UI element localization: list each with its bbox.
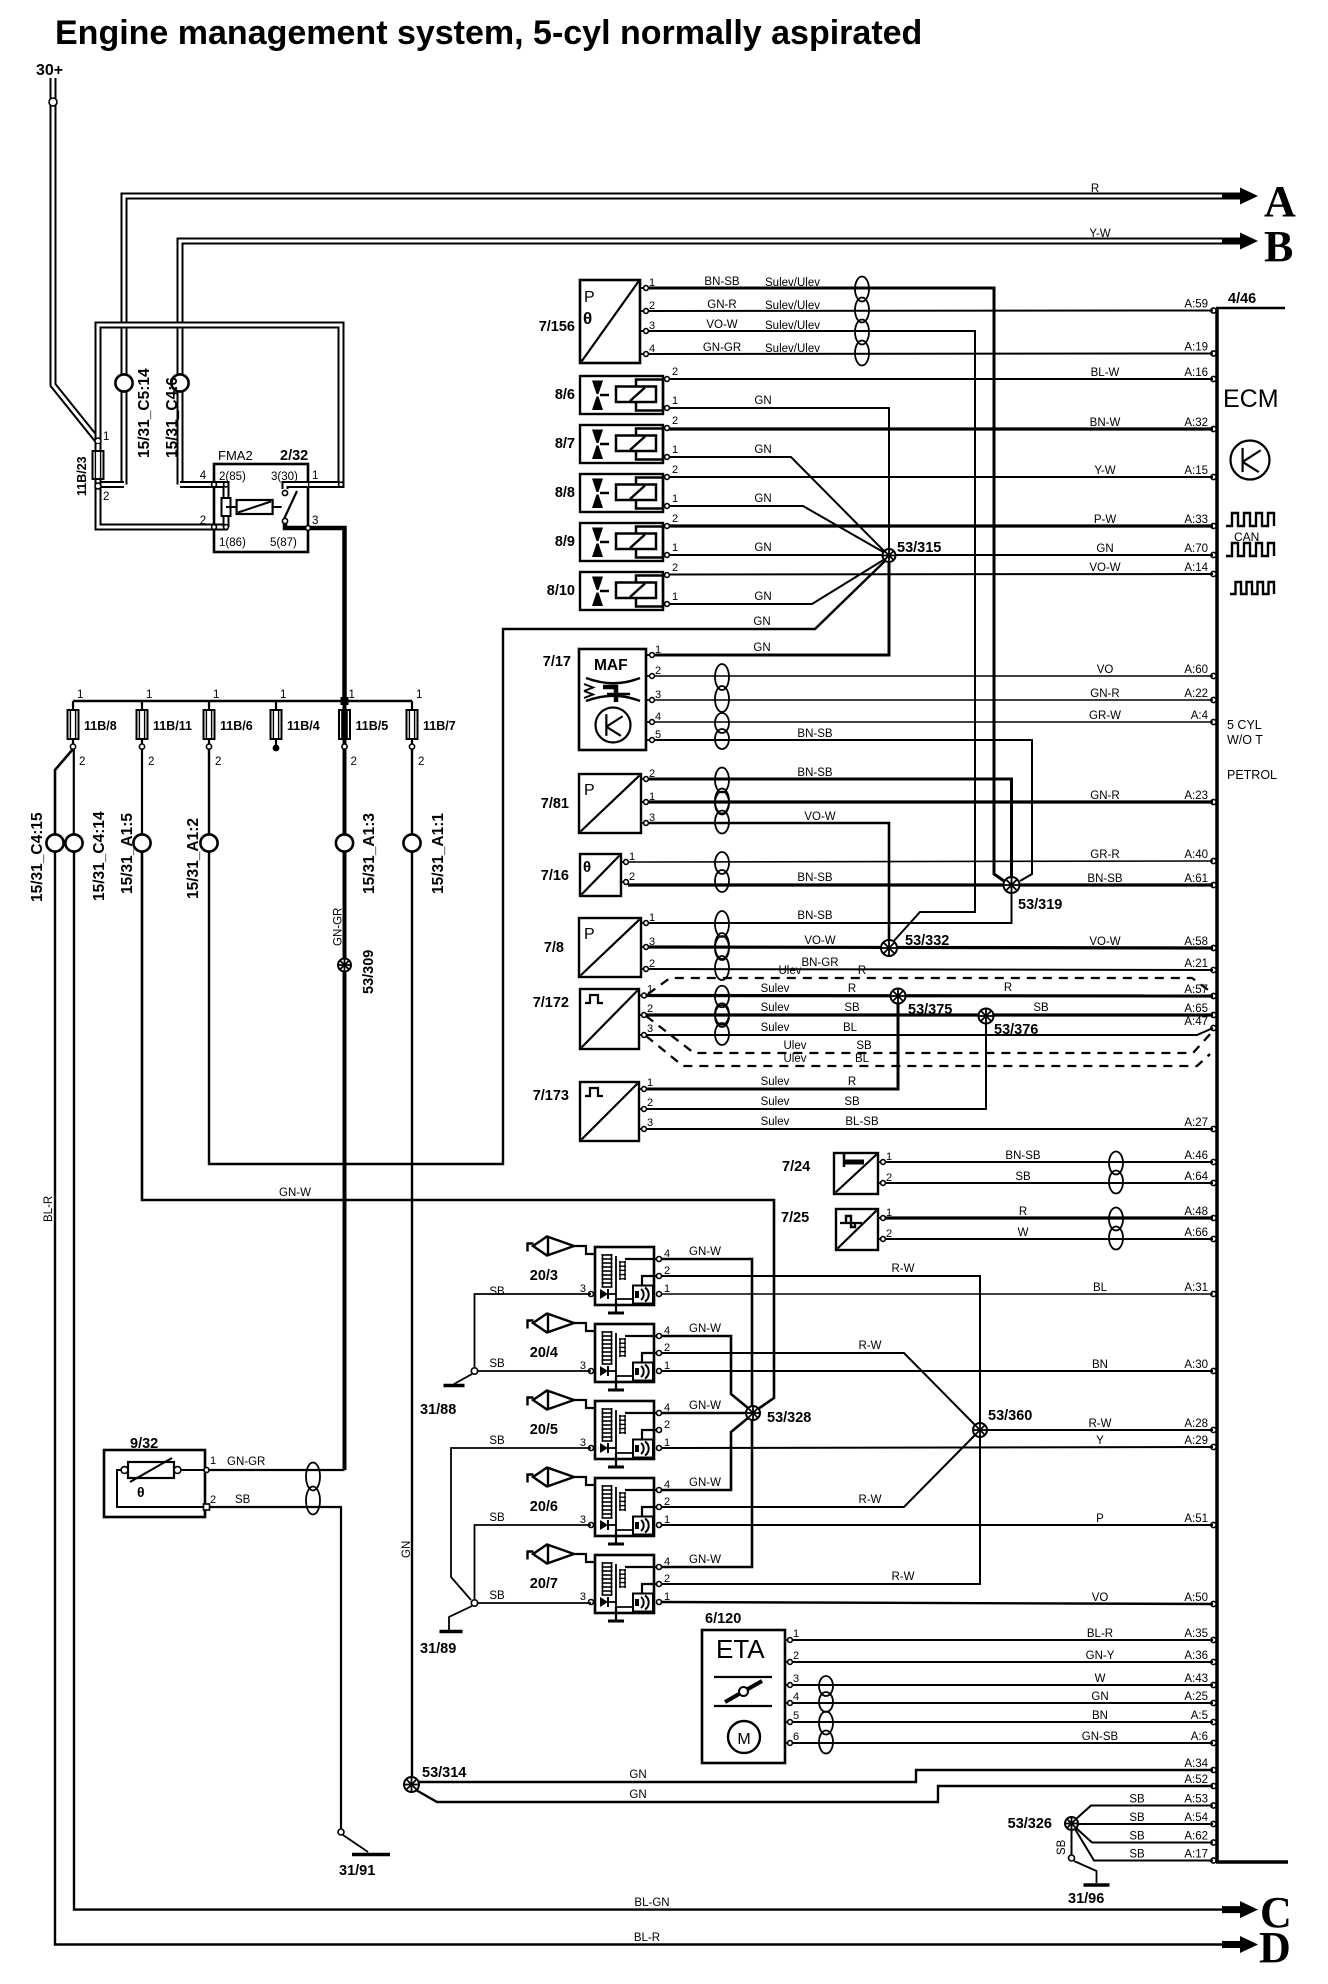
svg-text:A:31: A:31: [1184, 1282, 1208, 1294]
injector 8/10: [580, 572, 663, 610]
7/17 pin 2: [646, 675, 652, 677]
injector 8/10 solenoid coil: [616, 583, 656, 599]
wire spark plug to 20/3: [574, 1246, 595, 1254]
svg-text:2: 2: [664, 1419, 670, 1431]
connector circle 15/31_C5:14: [115, 374, 132, 391]
wire 20/4 pin1 BN to A:30: [661, 1370, 1213, 1372]
svg-text:Ulev: Ulev: [778, 965, 801, 977]
wire 20/6 pin4 GN-W: [661, 1418, 748, 1490]
wire fuse 11B/5 down (GN-GR feed): [343, 749, 347, 835]
injector 8/8 pin 1: [665, 504, 670, 509]
7/24 pin 1: [878, 1161, 883, 1163]
svg-text:A:48: A:48: [1184, 1206, 1208, 1218]
7/17 pin 3: [646, 699, 652, 701]
wire 7/24 pin2 SB to A:64: [885, 1182, 1213, 1184]
injector 8/7 armature: [636, 429, 663, 460]
connector circle 15/31_A1:3: [336, 834, 353, 851]
spark plug for 20/7: [528, 1552, 534, 1560]
wire 7/156 pin4 GN-GR to A:19: [648, 353, 1213, 356]
wire 7/156 pin2 GN-R to A:59: [648, 310, 1213, 313]
injector 8/10 armature: [636, 576, 663, 607]
svg-text:SB: SB: [489, 1286, 505, 1298]
injector 8/10 pin 1: [665, 602, 670, 607]
svg-text:A:21: A:21: [1184, 958, 1208, 970]
svg-text:BL-SB: BL-SB: [845, 1116, 879, 1128]
arrow A: [1222, 193, 1243, 200]
component 7/172 oxygen sensor: [580, 989, 639, 1049]
svg-text:7/156: 7/156: [539, 319, 575, 335]
ignition coil 20/4: [595, 1324, 654, 1382]
wire 7/17 pin4 GR-W to A:4: [655, 721, 1213, 723]
wire to ground 31/91: [343, 1835, 368, 1852]
svg-text:7/24: 7/24: [782, 1159, 810, 1175]
svg-text:GN-W: GN-W: [689, 1400, 721, 1412]
twisted pair 7/8: [715, 911, 729, 959]
20/4 pin 3: [589, 1369, 594, 1374]
svg-text:31/89: 31/89: [420, 1641, 456, 1657]
ground bar inside 20/6: [608, 1543, 624, 1546]
wire BL-GN feed down to arrow C: [74, 852, 1240, 1910]
wire 8/8 pin1 GN: [669, 506, 885, 553]
20/4 diode: [600, 1366, 608, 1376]
wire 15/31_C5:14 lower joint: [98, 481, 124, 488]
wire 20/3 secondary to pin 4: [625, 1258, 659, 1260]
wire 30+ battery feed (double line): [53, 78, 98, 441]
9/32 pin 1: [204, 1468, 209, 1473]
20/7 pin 3: [589, 1600, 594, 1605]
injector 8/6 pin 2: [665, 377, 670, 382]
svg-text:GN-GR: GN-GR: [703, 342, 741, 354]
fuse 11B/6: [208, 701, 210, 747]
connector circle 15/31_C4:15: [46, 834, 63, 851]
ground bar inside 20/4: [608, 1389, 624, 1392]
wire 20/3 pin4 GN-W: [661, 1259, 752, 1406]
wire 20/7 secondary to pin 4: [625, 1566, 659, 1568]
svg-text:BN-GR: BN-GR: [801, 957, 838, 969]
connector circle 15/31_A1:1: [403, 834, 420, 851]
svg-text:GN: GN: [754, 542, 771, 554]
wire GN feed from fuse 11B/6: [209, 560, 886, 1164]
svg-text:MAF: MAF: [594, 657, 628, 674]
svg-text:SB: SB: [489, 1512, 505, 1524]
svg-text:8/7: 8/7: [555, 436, 575, 452]
20/4 output stage: [633, 1363, 653, 1381]
svg-text:Sulev: Sulev: [761, 1116, 790, 1128]
wire SB from 53/326 to A:17: [1075, 1829, 1213, 1861]
svg-text:1: 1: [672, 395, 678, 407]
svg-text:B: B: [1264, 222, 1293, 271]
wire spark plug to 20/6: [574, 1477, 595, 1485]
spark plug for 20/3: [528, 1244, 534, 1252]
wire 7/81 pin3 VO-W to 53/332: [648, 823, 889, 941]
svg-text:6: 6: [793, 1731, 799, 1743]
svg-text:1: 1: [280, 689, 286, 701]
svg-text:1: 1: [672, 542, 678, 554]
20/4 pin 4: [657, 1334, 662, 1339]
svg-text:7/25: 7/25: [781, 1210, 809, 1226]
relay coil resistor: [222, 498, 231, 516]
spark plug for 20/4: [528, 1321, 534, 1329]
fuse 11B/23: [93, 451, 104, 479]
wire 20/7 pin2 R-W: [661, 1436, 980, 1584]
svg-text:31/91: 31/91: [339, 1863, 375, 1879]
20/6 pin 4: [657, 1488, 662, 1493]
svg-text:BL-GN: BL-GN: [634, 1897, 669, 1909]
svg-text:R: R: [1004, 982, 1012, 994]
wire R-W from 53/360 to A:28: [985, 1429, 1213, 1431]
wire 8/7 pin1 GN: [669, 457, 884, 551]
svg-text:GN-W: GN-W: [689, 1477, 721, 1489]
20/4 pin 2: [657, 1351, 662, 1356]
svg-text:2: 2: [793, 1650, 799, 1662]
svg-text:15/31_A1:3: 15/31_A1:3: [361, 813, 378, 894]
wire fuse 11B/6 down: [208, 749, 210, 835]
component 7/24 knock sensor: [834, 1153, 878, 1194]
ground node 31/88: [471, 1368, 477, 1374]
svg-text:4/46: 4/46: [1228, 291, 1256, 307]
wire 20/5 pin 2 to output stage: [642, 1430, 659, 1440]
svg-text:1: 1: [793, 1628, 799, 1640]
svg-text:C: C: [1260, 1888, 1292, 1937]
svg-text:BN: BN: [1092, 1359, 1108, 1371]
20/7 pin 4: [657, 1565, 662, 1570]
20/5 pin 4: [657, 1411, 662, 1416]
wire GN to MAF pin1: [655, 561, 889, 655]
svg-text:R-W: R-W: [892, 1571, 915, 1583]
7/8 pin 3: [641, 946, 646, 948]
wire 8/6 pin1 GN: [669, 408, 889, 550]
ground 31/89: [440, 1630, 463, 1634]
wire 20/4 internal ground: [616, 1375, 633, 1377]
twisted pair 7/172: [715, 986, 729, 1025]
7/25 pin 1: [878, 1217, 883, 1219]
svg-text:3: 3: [647, 1117, 653, 1129]
svg-text:7/8: 7/8: [544, 940, 564, 956]
svg-text:15/31_C4:14: 15/31_C4:14: [91, 811, 108, 901]
svg-text:BN: BN: [1092, 1710, 1108, 1722]
7/156 pin 1: [640, 287, 646, 289]
svg-text:20/5: 20/5: [530, 1422, 558, 1438]
ETA motor symbol: [728, 1721, 760, 1753]
svg-text:6/120: 6/120: [705, 1611, 741, 1627]
svg-text:A:64: A:64: [1184, 1171, 1208, 1183]
injector 8/9 armature: [636, 527, 663, 558]
svg-text:53/332: 53/332: [905, 933, 949, 949]
svg-text:GN: GN: [754, 395, 771, 407]
svg-text:2: 2: [672, 513, 678, 525]
svg-text:15/31_C5:14: 15/31_C5:14: [136, 368, 153, 458]
twisted pair 7/17: [715, 664, 729, 712]
wire spark plug to 20/5: [574, 1400, 595, 1408]
svg-text:11B/8: 11B/8: [84, 719, 117, 733]
svg-text:8/9: 8/9: [555, 534, 575, 550]
twisted pair 7/16: [715, 852, 729, 892]
ground bar inside 20/3: [608, 1312, 624, 1315]
svg-text:GR-W: GR-W: [1089, 710, 1121, 722]
svg-text:1: 1: [77, 689, 83, 701]
20/6 pin 3: [589, 1523, 594, 1528]
svg-text:8/8: 8/8: [555, 485, 575, 501]
wire SB from 53/326 to A:54: [1078, 1823, 1213, 1825]
twisted pair 7/24: [1109, 1152, 1123, 1194]
wire 20/5 pin3 SB: [451, 1448, 591, 1600]
svg-text:2: 2: [215, 756, 221, 768]
svg-text:5(87): 5(87): [270, 537, 297, 549]
spark plug for 20/5: [528, 1398, 534, 1406]
wire spark plug to 20/7: [574, 1554, 595, 1562]
svg-text:BL-W: BL-W: [1091, 367, 1120, 379]
svg-text:A:60: A:60: [1184, 664, 1208, 676]
svg-text:A:27: A:27: [1184, 1117, 1208, 1129]
ECM outline top: [1216, 307, 1285, 310]
svg-text:1: 1: [210, 1455, 216, 1467]
relay pin circles: [212, 482, 217, 487]
wire GN from fuse 11B/7 down to 53/314: [411, 852, 413, 1778]
svg-text:Ulev: Ulev: [783, 1040, 806, 1052]
relay pin 3 node: [306, 526, 311, 531]
splice 53/314: [404, 1777, 419, 1792]
injector 8/8 solenoid coil: [616, 485, 656, 501]
twisted pair ETA 5-6: [819, 1712, 833, 1754]
svg-text:BN-SB: BN-SB: [704, 276, 739, 288]
wire 7/25 pin1 R to A:48: [885, 1216, 1213, 1219]
svg-text:A:5: A:5: [1191, 1710, 1208, 1722]
svg-text:θ: θ: [583, 309, 592, 328]
wire 7/17 pin2 VO to A:60: [655, 675, 1213, 677]
injector 8/6 pin 1: [665, 406, 670, 411]
svg-text:53/328: 53/328: [767, 1410, 811, 1426]
wire 7/81 pin1 GN-R to A:23: [648, 800, 1213, 803]
9/32 pin 2: [204, 1504, 210, 1510]
wire 7/8 pin2 BN-GR to A:21: [648, 969, 1213, 970]
wire ETA pin2 GN-Y to A:36: [792, 1661, 1213, 1663]
wire 20/3 pin2 R-W: [661, 1276, 980, 1424]
svg-text:A:36: A:36: [1184, 1650, 1208, 1662]
svg-text:A:50: A:50: [1184, 1592, 1208, 1604]
wire 20/5 secondary to pin 4: [625, 1412, 659, 1414]
injector 8/8: [580, 474, 663, 512]
svg-text:R: R: [848, 983, 856, 995]
wire 7/17 pin3 GN-R to A:22: [655, 699, 1213, 701]
ECM outline bottom: [1216, 1860, 1288, 1864]
7/173 pin 1: [639, 1088, 644, 1090]
wire 8/9 pin2 P-W to A:33: [669, 524, 1213, 527]
svg-text:53/360: 53/360: [988, 1408, 1032, 1424]
node 2 below fuse 11B/23: [95, 483, 101, 489]
wire 15/31_C4:6 to relay pin 4: [180, 481, 214, 488]
wire 20/3 pin1 BL to A:31: [661, 1293, 1213, 1295]
relay coil: [237, 500, 273, 514]
7/16 pin 2: [621, 881, 626, 883]
relay armature: [284, 491, 297, 519]
20/3 diode: [600, 1289, 608, 1299]
svg-text:Y-W: Y-W: [1094, 465, 1115, 477]
20/5 output stage: [633, 1440, 653, 1458]
20/5 pin 1: [657, 1446, 662, 1451]
svg-text:53/314: 53/314: [422, 1765, 466, 1781]
wire 20/4 secondary to pin 4: [625, 1335, 659, 1337]
20/5 diode: [600, 1443, 608, 1453]
20/3 pin 3: [589, 1292, 594, 1297]
svg-text:P-W: P-W: [1094, 514, 1117, 526]
svg-text:20/7: 20/7: [530, 1576, 558, 1592]
wire 7/17 pin5 BN-SB to 53/319: [655, 740, 1032, 881]
ETA pin 5: [785, 1721, 790, 1723]
svg-text:BN-SB: BN-SB: [797, 767, 832, 779]
bus feed node: [341, 697, 349, 705]
wire 20/4 pin4 GN-W: [661, 1336, 748, 1408]
twisted pair ETA 3-4: [819, 1676, 833, 1712]
relay moving contact: [282, 518, 287, 523]
wire 7/173 pin1 Sulev R up to 53/375: [646, 1003, 898, 1089]
svg-text:R-W: R-W: [1089, 1418, 1112, 1430]
svg-text:GN-Y: GN-Y: [1086, 1650, 1115, 1662]
ignition coil 20/7: [595, 1555, 654, 1613]
7/81 pin 1: [641, 801, 646, 803]
wire 8/8 pin2 Y-W to A:15: [669, 476, 1213, 478]
svg-text:BN-SB: BN-SB: [797, 910, 832, 922]
svg-text:Y: Y: [1096, 1435, 1104, 1447]
svg-text:GN-GR: GN-GR: [333, 908, 345, 946]
7/156 pin 4: [640, 353, 646, 355]
svg-text:1: 1: [655, 644, 661, 656]
svg-text:20/4: 20/4: [530, 1345, 558, 1361]
svg-text:A:53: A:53: [1184, 1794, 1208, 1806]
20/6 diode: [600, 1520, 608, 1530]
svg-text:A:30: A:30: [1184, 1359, 1208, 1371]
svg-text:GN-W: GN-W: [279, 1187, 311, 1199]
wire ETA pin6 GN-SB to A:6: [792, 1742, 1213, 1744]
ignition coil 20/3: [595, 1247, 654, 1305]
svg-text:1: 1: [672, 493, 678, 505]
ground bar inside 20/5: [608, 1466, 624, 1469]
wire feed loop to relay (double line): [98, 325, 341, 485]
injector 8/6 solenoid coil: [616, 387, 656, 403]
injector 8/8 pin 2: [665, 475, 670, 480]
relay output wire 5(87): [285, 523, 345, 701]
wire 53/319 down to 7/8 pin1: [648, 892, 1012, 923]
svg-text:ETA: ETA: [716, 1634, 765, 1664]
svg-text:A:70: A:70: [1184, 543, 1208, 555]
svg-text:5: 5: [793, 1710, 799, 1722]
7/25 pin 2: [878, 1238, 883, 1240]
svg-text:15/31_C4:15: 15/31_C4:15: [29, 812, 46, 902]
svg-text:2: 2: [418, 756, 424, 768]
wire 20/7 pin3 SB: [475, 1602, 592, 1604]
svg-text:2: 2: [148, 756, 154, 768]
injector 8/9 solenoid coil: [616, 534, 656, 550]
svg-text:M: M: [737, 1731, 750, 1748]
svg-text:53/309: 53/309: [361, 950, 377, 994]
ground node 31/89: [471, 1600, 477, 1606]
svg-text:VO: VO: [1097, 664, 1114, 676]
wire 20/6 pin1 P to A:51: [661, 1524, 1213, 1526]
svg-text:R: R: [1019, 1206, 1027, 1218]
svg-text:A:35: A:35: [1184, 1628, 1208, 1640]
svg-text:4: 4: [200, 470, 207, 482]
splice 53/328: [746, 1406, 760, 1420]
svg-text:A:15: A:15: [1184, 465, 1208, 477]
svg-text:11B/6: 11B/6: [220, 719, 253, 733]
terminal on 30+ wire: [49, 98, 57, 106]
svg-text:BL-R: BL-R: [634, 1932, 660, 1944]
wire 7/81 pin2 BN-SB to 53/319: [648, 779, 1012, 878]
svg-text:1: 1: [649, 912, 655, 924]
svg-text:15/31_A1:1: 15/31_A1:1: [430, 813, 447, 894]
svg-text:2: 2: [647, 1003, 653, 1015]
wire 53/326 down to ground 31/96: [1071, 1830, 1073, 1855]
svg-text:A:17: A:17: [1184, 1849, 1208, 1861]
wire GN from 53/314 to A:34: [418, 1770, 1213, 1782]
ETA pin 3: [785, 1684, 790, 1686]
svg-text:1: 1: [312, 470, 318, 482]
svg-text:2: 2: [629, 871, 635, 883]
7/16 pin 1: [621, 861, 626, 863]
svg-text:GN-R: GN-R: [1090, 688, 1119, 700]
svg-text:PETROL: PETROL: [1227, 768, 1277, 782]
svg-text:53/315: 53/315: [897, 540, 941, 556]
component 7/8 pressure sensor: [579, 918, 641, 977]
svg-text:A:62: A:62: [1184, 1831, 1208, 1843]
wire GN from 53/314 to A:52: [416, 1786, 1213, 1802]
7/24 pin 2: [878, 1182, 883, 1184]
svg-text:SB: SB: [856, 1040, 872, 1052]
ETA throttle symbol: [714, 1676, 772, 1678]
svg-text:7/172: 7/172: [533, 995, 569, 1011]
20/3 output stage: [633, 1286, 653, 1304]
svg-text:2: 2: [672, 366, 678, 378]
svg-text:1(86): 1(86): [219, 537, 246, 549]
ground bar inside 20/7: [608, 1620, 624, 1623]
arrow B: [1222, 238, 1243, 245]
wire 20/5 pin1 Y to A:29: [661, 1447, 1213, 1448]
twisted pair 7/81: [715, 768, 729, 814]
splice 53/309: [338, 959, 351, 972]
svg-text:BL-R: BL-R: [1087, 1628, 1113, 1640]
wire to ground 31/96: [1074, 1861, 1097, 1883]
wire 20/6 internal ground: [616, 1529, 633, 1531]
svg-text:θ: θ: [583, 859, 591, 876]
ground node 31/96: [1069, 1855, 1075, 1861]
7/172 pin 2: [639, 1014, 644, 1016]
svg-text:R-W: R-W: [859, 1340, 882, 1352]
wire Y-W to connector B (double line): [180, 241, 1240, 485]
svg-text:2: 2: [672, 562, 678, 574]
injector 8/8 armature: [636, 478, 663, 509]
ground 31/88: [444, 1384, 465, 1388]
9/32 thermistor: [128, 1462, 174, 1478]
wire 20/7 internal ground: [616, 1606, 633, 1608]
ground node 31/91: [338, 1829, 344, 1835]
svg-text:11B/11: 11B/11: [153, 719, 192, 733]
svg-text:31/88: 31/88: [420, 1402, 456, 1418]
wire 20/7 pin4 GN-W: [661, 1420, 752, 1567]
svg-text:15/31_A1:2: 15/31_A1:2: [185, 818, 202, 899]
svg-text:GN: GN: [753, 642, 770, 654]
7/17 pin 1: [646, 654, 652, 656]
svg-text:2: 2: [200, 515, 206, 527]
wire 7/173 pin2 Sulev SB up to 53/376: [646, 1023, 986, 1109]
svg-text:53/326: 53/326: [1008, 1816, 1052, 1832]
svg-text:1: 1: [103, 431, 109, 443]
svg-text:SB: SB: [1015, 1171, 1031, 1183]
7/8 pin 1: [641, 922, 646, 924]
7/173 pin 2: [639, 1108, 644, 1110]
svg-text:GN-R: GN-R: [1090, 790, 1119, 802]
svg-text:3: 3: [793, 1673, 799, 1685]
relay 2/32 box: [214, 464, 308, 552]
splice 53/360: [973, 1423, 987, 1437]
